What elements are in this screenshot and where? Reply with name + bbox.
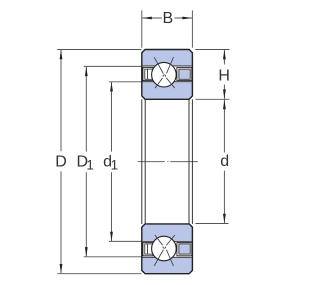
dimension B: arrowheads: [142, 17, 152, 20]
upper bearing cross-section: [142, 50, 193, 100]
dimension d1: arrowheads: [110, 82, 113, 92]
dimension B: extension lines: [142, 10, 193, 47]
svg-text:1: 1: [86, 157, 94, 172]
svg-text:H: H: [218, 67, 230, 84]
dimension d: extension line: [195, 100, 228, 224]
dimension H: extension lines: [195, 50, 229, 100]
contact angle lines: [154, 57, 175, 88]
dimension D: extension lines: [57, 50, 141, 274]
ring cross-section body: [142, 50, 193, 100]
lower bearing cross-section (mirror): [142, 224, 193, 274]
dimension D1: arrowheads: [85, 67, 88, 77]
dimension B: label: [162, 10, 173, 27]
ball: [152, 62, 177, 87]
dimension D1: label: [77, 153, 89, 170]
cage right: [177, 67, 192, 80]
svg-text:d: d: [220, 153, 229, 170]
svg-text:1: 1: [111, 157, 119, 172]
dimension d1: extension lines: [109, 82, 141, 242]
dimension D: arrowheads: [60, 50, 63, 60]
cage left: [143, 67, 153, 80]
raceway band: [143, 66, 192, 82]
dimension d1: label: [103, 153, 112, 170]
dimension d: label: [220, 153, 229, 170]
centerline (dash-dot axis): [138, 161, 198, 163]
dimension D1: extension lines: [84, 66, 142, 256]
dimension H: label: [218, 67, 230, 84]
svg-text:D: D: [55, 153, 67, 170]
dimension D: label: [55, 153, 67, 170]
dimension d: arrowheads: [223, 100, 226, 110]
bore cylinder connecting lines: [142, 99, 193, 224]
svg-text:B: B: [162, 10, 173, 27]
dimension H: arrowheads: [223, 50, 226, 60]
